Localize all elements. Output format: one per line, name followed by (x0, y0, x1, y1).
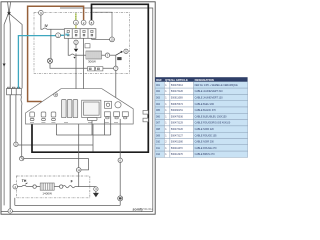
wire col2 continues to base (75, 53, 77, 88)
node 7 (105, 53, 109, 57)
wire heater to node 2 (54, 186, 59, 188)
mast knot (8, 12, 11, 15)
svg-text:500479036: 500479036 (171, 115, 184, 118)
drop pad3 to bus (55, 124, 57, 135)
table row 006 (155, 113, 248, 119)
node 2 (brown) (81, 20, 86, 25)
drop clipB to bus (110, 117, 112, 136)
node 8 (black) (89, 20, 94, 25)
svg-text:500473126: 500473126 (171, 128, 184, 131)
drop col to black bus (92, 124, 94, 152)
earth drop from clip C (119, 119, 121, 158)
table row 007 (155, 120, 248, 126)
node 7b (114, 66, 118, 70)
svg-text:CABLE JAUNE/VERT 130: CABLE JAUNE/VERT 130 (195, 97, 224, 100)
thin loop wire terminal4 to circle 8 (92, 12, 112, 37)
left bus wire (18, 144, 93, 146)
svg-text:500473126: 500473126 (171, 90, 184, 93)
lamp bottom wire (50, 63, 114, 68)
node 3b ground (94, 187, 98, 191)
svg-text:DESIGNATION: DESIGNATION (195, 78, 214, 82)
fuse wave F (63, 186, 75, 188)
switch IV wire from circle 9 (41, 15, 43, 29)
svg-text:011: 011 (156, 147, 160, 150)
bottom return wire (15, 204, 120, 206)
svg-text:500451380: 500451380 (171, 141, 184, 144)
svg-text:FER AU 1/P0 + SEMELLE CERAMIQU: FER AU 1/P0 + SEMELLE CERAMIQUE (195, 84, 239, 87)
table row 004 (155, 101, 248, 107)
table row 002 (155, 88, 248, 94)
table header row (155, 77, 248, 82)
svg-text:008: 008 (156, 128, 161, 131)
mast right leg (10, 14, 22, 88)
sheet inner frame bottom line (2, 211, 153, 213)
bottom thermostat circuit (18, 159, 99, 197)
small node a (33, 185, 36, 188)
svg-text:300W: 300W (88, 59, 96, 63)
svg-text:REF: REF (156, 78, 162, 82)
heater element R1 300W (hatched) (86, 51, 102, 59)
wall tab lower (143, 118, 148, 122)
wire below connector mid to node circle (15, 95, 17, 142)
connector block on mast (7, 87, 22, 95)
cradle plate in base (82, 100, 101, 120)
node 10 right of block (110, 37, 115, 42)
wire heater to circle 7 (102, 54, 106, 56)
table rows (155, 82, 248, 158)
svg-text:012: 012 (156, 153, 161, 156)
drop clipA to bus (104, 119, 106, 135)
table row 012 (155, 151, 248, 157)
node 9b (124, 49, 128, 53)
cable noir (black) big loop (32, 4, 148, 152)
svg-text:009: 009 (156, 134, 161, 137)
svg-text:CABLE ROUGE/ROUGE 40X100: CABLE ROUGE/ROUGE 40X100 (195, 122, 231, 125)
node 2b below block (74, 40, 78, 44)
svg-text:500413270: 500413270 (171, 153, 184, 156)
node 6 (118, 158, 122, 162)
svg-text:500460151: 500460151 (171, 109, 184, 112)
svg-text:500470014: 500470014 (171, 84, 184, 87)
wire below circle 2 (75, 45, 77, 49)
wire node to heater (36, 186, 40, 188)
drop from junction to circle 7b (115, 55, 117, 66)
contact pad 1 (30, 112, 35, 121)
VDE emblem (118, 196, 123, 201)
svg-text:500473129: 500473129 (171, 122, 184, 125)
switch square with button (105, 101, 112, 108)
table row 003 (155, 94, 248, 100)
lamp feed wire (50, 29, 52, 58)
svg-text:003: 003 (156, 97, 161, 100)
table row 005 (155, 107, 248, 113)
round button (115, 102, 121, 108)
switch IV contact bump (43, 28, 47, 29)
thermostat unit dashed box (16, 176, 89, 198)
svg-text:001: 001 (156, 84, 161, 87)
svg-text:CABLE JAUNE/VERT 310: CABLE JAUNE/VERT 310 (195, 90, 224, 93)
wire earth sleeve to node 11 (24, 159, 89, 170)
iron plug arrow (down) (74, 49, 78, 52)
contact pad 3 (51, 112, 56, 121)
base mid bus (56, 134, 110, 136)
svg-text:CABLE BLEU 200: CABLE BLEU 200 (195, 103, 215, 106)
table row 011 (155, 145, 248, 151)
svg-text:007: 007 (156, 122, 161, 125)
svg-text:CABLE BLANC 370: CABLE BLANC 370 (195, 109, 217, 112)
clip terminal A (105, 112, 111, 119)
numbered node circles (8, 10, 128, 213)
wall tab upper (143, 111, 148, 115)
node 1 (56, 33, 61, 38)
VDE emblem marks (119, 197, 122, 199)
svg-text:CABLE BLEU/BLEU 150X150: CABLE BLEU/BLEU 150X150 (195, 115, 228, 118)
clip terminal C (122, 112, 128, 119)
table row 008 (155, 126, 248, 132)
svg-text:1400W: 1400W (42, 192, 52, 196)
svg-text:CABLE ROUGE 105: CABLE ROUGE 105 (195, 134, 218, 137)
cable brun (brown) (28, 6, 84, 106)
svg-text:CABLE BRUN 270: CABLE BRUN 270 (195, 153, 216, 156)
wire to ground circle 3 (75, 186, 96, 188)
arrow on left leg (3, 64, 6, 67)
wire from IV switch to block col1 (47, 28, 64, 30)
svg-text:004: 004 (156, 103, 161, 106)
svg-text:somfy: somfy (133, 207, 145, 211)
base station outline (top view polygon) (26, 89, 134, 124)
terminal bars in base (62, 100, 78, 118)
svg-text:IV: IV (45, 24, 49, 28)
svg-text:002: 002 (156, 90, 161, 93)
svg-text:5012012: 5012012 (144, 208, 154, 211)
small box above heater (85, 44, 90, 48)
wire dashed box to bottom return (14, 198, 16, 206)
svg-text:500411070: 500411070 (171, 147, 183, 150)
table row 010 (155, 139, 248, 145)
varistor component at junction (117, 57, 121, 60)
switch blade to circle 9b (116, 51, 123, 55)
wire below VDE mark (119, 201, 121, 206)
node 9 (39, 10, 44, 15)
clip terminal B (114, 112, 120, 119)
svg-text:006: 006 (156, 115, 161, 118)
drop cradle to bus (91, 121, 93, 135)
sheet inner frame right line (60, 8, 153, 212)
table row 009 (155, 132, 248, 138)
indicator lamp (47, 58, 52, 63)
solder tick marks under pads (30, 122, 118, 124)
wire circle 7 to junction (110, 54, 116, 56)
sheet outer frame (1, 2, 155, 214)
node 5 left (14, 142, 18, 146)
svg-text:CABLE NOIR 220: CABLE NOIR 220 (195, 128, 215, 131)
teal segment into terminal block (61, 34, 65, 36)
svg-text:010: 010 (156, 141, 161, 144)
svg-text:F: F (71, 180, 73, 184)
wire circle6 to VDE mark (119, 163, 121, 196)
terminal block X1 (64, 29, 96, 39)
wire col3 down to base (83, 38, 85, 88)
thermostat contact (70, 54, 74, 55)
enclosure (iron unit) dash-dot boundary (34, 13, 130, 74)
wire from circle 4 (18, 186, 22, 188)
heater element R2 1400W (hatched) (40, 183, 54, 190)
screw symbol left (54, 93, 58, 97)
earth arrow below circle 3 (94, 191, 99, 196)
wire circle 7b down into base (116, 71, 123, 115)
strain relief hook (21, 95, 22, 157)
mast middle leg (9, 14, 10, 208)
mast left leg (4, 14, 8, 205)
cable jaune/vert (yellow-green) (75, 13, 77, 20)
svg-text:CABLE ROUGE 270: CABLE ROUGE 270 (195, 147, 218, 150)
cable bleu/bleu (teal) (18, 36, 55, 89)
svg-text:005: 005 (156, 109, 161, 112)
mast pole top lines (8, 2, 11, 12)
node 3 (74, 20, 79, 25)
parts table (155, 77, 248, 82)
wire block col1 down to thermostat (68, 38, 70, 55)
table row 001 (155, 82, 248, 88)
svg-text:No ARTICLE: No ARTICLE (171, 78, 188, 82)
svg-text:500611069: 500611069 (171, 97, 183, 100)
svg-text:TH: TH (22, 179, 27, 183)
connector boxes below heater (88, 67, 103, 71)
drop circle11 to fuse wire (78, 172, 80, 187)
svg-text:500676374: 500676374 (171, 103, 184, 106)
terminal block X1 cyan contact (65, 34, 69, 36)
wire below connector left (9, 95, 11, 209)
node 4 on dashed box (13, 184, 18, 189)
small node b (60, 185, 63, 188)
drop to circle 11 (78, 124, 80, 168)
node earth sleeve (20, 156, 24, 160)
wire to node (27, 186, 33, 188)
svg-text:500473127: 500473127 (171, 134, 184, 137)
thermostat TH contact (22, 185, 27, 186)
node 11 (76, 168, 81, 173)
node 4b bottom left (8, 209, 12, 213)
contact pad 2 (41, 112, 46, 121)
svg-text:CABLE NOIR 200: CABLE NOIR 200 (195, 141, 215, 144)
svg-text:QTE: QTE (165, 78, 171, 82)
wire thermostat to heater (75, 54, 87, 56)
